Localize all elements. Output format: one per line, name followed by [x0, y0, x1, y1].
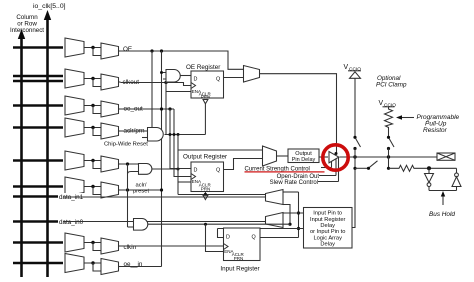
svg-text:Delay: Delay — [320, 242, 335, 248]
wire vertical v2 — [165, 83, 167, 135]
node aclr/prn label — [123, 127, 151, 134]
svg-text:Output Register: Output Register — [183, 154, 227, 161]
block Output Pin Delay — [288, 149, 319, 163]
node OE label — [122, 45, 136, 52]
node clkin label — [123, 243, 144, 250]
mux M3 input-path select — [266, 190, 284, 205]
svg-text:Logic Array: Logic Array — [313, 235, 342, 241]
node junction — [91, 126, 94, 129]
mux second-level row y=105.5 — [101, 101, 119, 117]
wire M1 output to tri-state enable — [260, 74, 337, 153]
and-gate G1 — [166, 70, 180, 83]
wire oe_out — [119, 108, 121, 110]
node data_in0 label — [58, 218, 91, 226]
svg-text:Input Register: Input Register — [310, 217, 346, 223]
node junction — [91, 185, 94, 188]
wire row6 aclr/preset net — [121, 189, 162, 191]
mux second-level row y=127.5 — [101, 123, 119, 139]
register U2 box — [191, 162, 224, 192]
wire ladder rung y=263 — [13, 262, 63, 264]
pin clock triangle — [191, 83, 196, 89]
wire data_in0 net — [63, 221, 266, 223]
wire — [84, 160, 101, 162]
svg-text:CCIO: CCIO — [384, 103, 396, 109]
svg-text:io_clk[5..0]: io_clk[5..0] — [33, 3, 66, 10]
wire bus hold pointer arrow — [442, 193, 444, 205]
mux second-level row y=263 — [101, 259, 119, 275]
wire bus hold bottom rail — [429, 190, 457, 192]
node junction — [91, 46, 94, 49]
svg-text:V: V — [379, 100, 384, 107]
mux first-level row y=105.5 — [65, 96, 84, 115]
mux M1 OE select — [244, 66, 260, 83]
wire oe__in net — [121, 266, 162, 268]
node oe_out label — [123, 105, 148, 112]
wire current strength line — [321, 167, 332, 169]
svg-text:Q: Q — [252, 235, 256, 241]
mux second-level row y=160.5 — [101, 156, 119, 172]
wire vertical v5 — [177, 135, 179, 195]
wire — [84, 105, 101, 107]
wire vertical v6 — [298, 192, 300, 238]
wire feedback loop — [93, 161, 101, 169]
buffer tri-state output driver — [329, 152, 339, 163]
svg-text:OE Register: OE Register — [186, 64, 220, 71]
svg-text:PRN: PRN — [201, 94, 211, 99]
mux first-level row y=47.5 — [65, 38, 84, 57]
mux first-level row y=263 — [65, 254, 84, 273]
svg-text:D: D — [194, 168, 198, 174]
wire OE — [119, 50, 121, 52]
mux first-level row y=242.5 — [65, 233, 84, 252]
wire data_in1 net — [63, 196, 266, 198]
wire row output — [119, 163, 121, 165]
node junction — [91, 241, 94, 244]
wire G1 inputs — [162, 73, 167, 80]
svg-text:V: V — [344, 64, 349, 71]
wire PRN arrow below OE register — [203, 100, 208, 104]
resistor bus hold — [389, 165, 457, 171]
wire clamp vertical — [354, 78, 356, 137]
wire M4 top input to delay box — [283, 212, 304, 214]
resistor programmable pull-up — [385, 107, 393, 138]
svg-text:Delay: Delay — [320, 223, 335, 229]
diode bus hold up — [456, 168, 458, 173]
pin clock triangle — [224, 244, 229, 250]
wire ladder rung y=127.5 — [13, 126, 63, 128]
mux second-level row y=78.5 — [101, 74, 119, 90]
wire slew rate line — [318, 181, 339, 183]
diode bus hold down — [428, 168, 430, 173]
node red highlight circle — [323, 145, 348, 170]
switch bus hold — [370, 161, 378, 168]
wire G2 output H1 — [165, 134, 206, 136]
wire ladder rung y=160.5 — [13, 159, 63, 161]
and-gate G2 chip-wide reset — [148, 128, 164, 142]
svg-text:PRN: PRN — [201, 186, 211, 191]
node junction clkout/v2 — [164, 81, 167, 84]
wire — [84, 242, 101, 244]
wire — [84, 186, 101, 188]
pin clock triangle — [191, 174, 196, 180]
wire ladder rung y=221.5 — [13, 220, 63, 222]
node junction OE/v1 — [150, 49, 153, 52]
wire clkin net — [121, 245, 224, 247]
wire delay box to buffer — [319, 156, 328, 158]
wire vertical from OE dot — [151, 51, 153, 135]
and-gate G4 input clock gate — [134, 219, 148, 231]
wire oe__in — [119, 266, 121, 268]
wire ladder rung y=105.5 — [13, 104, 63, 106]
wire aclr/prn net — [121, 130, 148, 132]
wire ladder rung y=47.5 — [13, 46, 63, 48]
svg-text:D: D — [194, 77, 198, 83]
mux second-level row y=186.5 — [101, 182, 119, 198]
wire vertical v3 — [170, 109, 191, 169]
svg-text:Q: Q — [216, 168, 220, 174]
wire input register Q out — [260, 237, 299, 239]
wire feedback loop — [93, 243, 101, 251]
block Input Pin Delay — [304, 208, 353, 249]
wire M2 to delay box — [277, 155, 289, 157]
switch clamp — [356, 138, 361, 147]
register U3 Input Register box — [224, 228, 261, 261]
wire feedback loop — [93, 263, 101, 271]
wire vertical OE to oe__in — [161, 51, 163, 267]
wire ACLR riser below output register — [204, 192, 206, 195]
wire G1 output to D — [181, 75, 192, 77]
wire oe_out net — [121, 108, 175, 110]
svg-text:Resistor: Resistor — [423, 127, 448, 134]
node junction — [91, 159, 94, 162]
pin I/O pad — [437, 153, 455, 160]
mux second-level row y=47.5 — [101, 43, 119, 59]
diode PCI clamp — [350, 72, 361, 79]
wire Q2 to output mux — [224, 159, 263, 170]
svg-text:PCI Clamp: PCI Clamp — [376, 82, 407, 89]
wire — [84, 47, 101, 49]
svg-text:Q: Q — [216, 77, 220, 83]
switch pull-up — [389, 138, 394, 147]
register U1 box — [191, 71, 224, 98]
node junction — [91, 77, 94, 80]
wire aclr/prn — [119, 130, 121, 132]
wire column/row interconnect bus — [20, 38, 23, 277]
svg-text:preset: preset — [133, 189, 150, 195]
wire feedback loop — [93, 128, 101, 136]
wire output bypass — [178, 149, 263, 151]
wire bus hold row — [353, 167, 356, 170]
wire reset distribution — [178, 194, 266, 196]
svg-text:Open-Drain Out: Open-Drain Out — [277, 174, 320, 180]
wire Q to OE mux — [224, 77, 244, 79]
mux M2 output select — [263, 146, 277, 166]
node oe__in label — [123, 260, 147, 267]
wire ladder rung y=242.5 — [13, 241, 63, 243]
wire clkout — [119, 81, 121, 83]
wire G4 output to ENA — [148, 223, 290, 225]
wire clkout net — [121, 83, 192, 86]
wire G2 lower input stub — [142, 137, 148, 139]
svg-text:PRN: PRN — [234, 256, 244, 261]
node clkout label — [122, 78, 145, 85]
mux second-level row y=242.5 — [101, 238, 119, 254]
svg-text:D: D — [226, 235, 230, 241]
wire open drain line — [319, 175, 336, 177]
wire G4 input stub — [128, 226, 134, 228]
node junction — [91, 261, 94, 264]
wire feedback loop — [93, 79, 101, 87]
wire vertical row5-row6-G4 — [127, 164, 129, 227]
wire M3 top input — [283, 191, 299, 193]
wire — [84, 78, 101, 80]
wire OE net — [121, 51, 244, 69]
wire pull-up label arrow — [399, 117, 414, 119]
svg-text:OE: OE — [123, 46, 132, 53]
wire — [84, 262, 101, 264]
svg-text:Input Register: Input Register — [220, 266, 259, 273]
svg-text:or Input Pin to: or Input Pin to — [310, 229, 345, 235]
wire ladder rung y=76 — [13, 75, 63, 77]
svg-text:Slew Rate Control: Slew Rate Control — [270, 180, 318, 186]
wire control verticals — [332, 157, 339, 181]
svg-text:Input Pin to: Input Pin to — [313, 211, 342, 217]
node data_in1 label — [58, 193, 91, 201]
wire feedback loop — [93, 48, 101, 56]
wire clkin — [119, 245, 121, 247]
mux first-level row y=127.5 — [65, 118, 84, 137]
wire riser to G3 lower input — [128, 172, 139, 175]
node junction oe_out — [160, 107, 163, 110]
svg-text:Chip-Wide Reset: Chip-Wide Reset — [104, 142, 148, 148]
wire ENA stub OE register — [166, 91, 191, 93]
wire M3 bottom input riser v7 — [283, 205, 290, 225]
wire G3 output — [152, 168, 178, 170]
wire vertical v4 — [174, 109, 191, 177]
mux first-level row y=160.5 — [65, 151, 84, 170]
wire ladder rung y=196.5 — [13, 195, 63, 197]
node Column or Row Interconnect label — [10, 14, 44, 34]
svg-text:clkin: clkin — [124, 244, 137, 251]
wire row output — [119, 189, 121, 191]
node junction — [91, 104, 94, 107]
mux M4 input-path select — [266, 213, 284, 228]
mux first-level row y=78.5 — [65, 69, 84, 88]
wire feedback loop — [93, 187, 101, 195]
wire ENA stub — [178, 181, 191, 183]
svg-text:data_in0: data_in0 — [59, 219, 84, 226]
wire pad net — [340, 156, 438, 158]
wire feedback loop — [93, 106, 101, 114]
wire io_clk bus — [46, 19, 49, 277]
and-gate G3 aclr/preset — [139, 164, 152, 175]
wire ladder rung y=81 — [13, 80, 63, 82]
wire ladder rung y=186.5 — [13, 185, 63, 187]
wire input register D feed — [218, 228, 304, 230]
svg-text:Pin Delay: Pin Delay — [292, 157, 316, 163]
wire — [84, 127, 101, 129]
wire row5 to G3 — [121, 163, 139, 165]
svg-text:Interconnect: Interconnect — [10, 27, 44, 34]
svg-text:Bus Hold: Bus Hold — [429, 211, 455, 218]
mux first-level row y=186.5 — [65, 177, 84, 196]
